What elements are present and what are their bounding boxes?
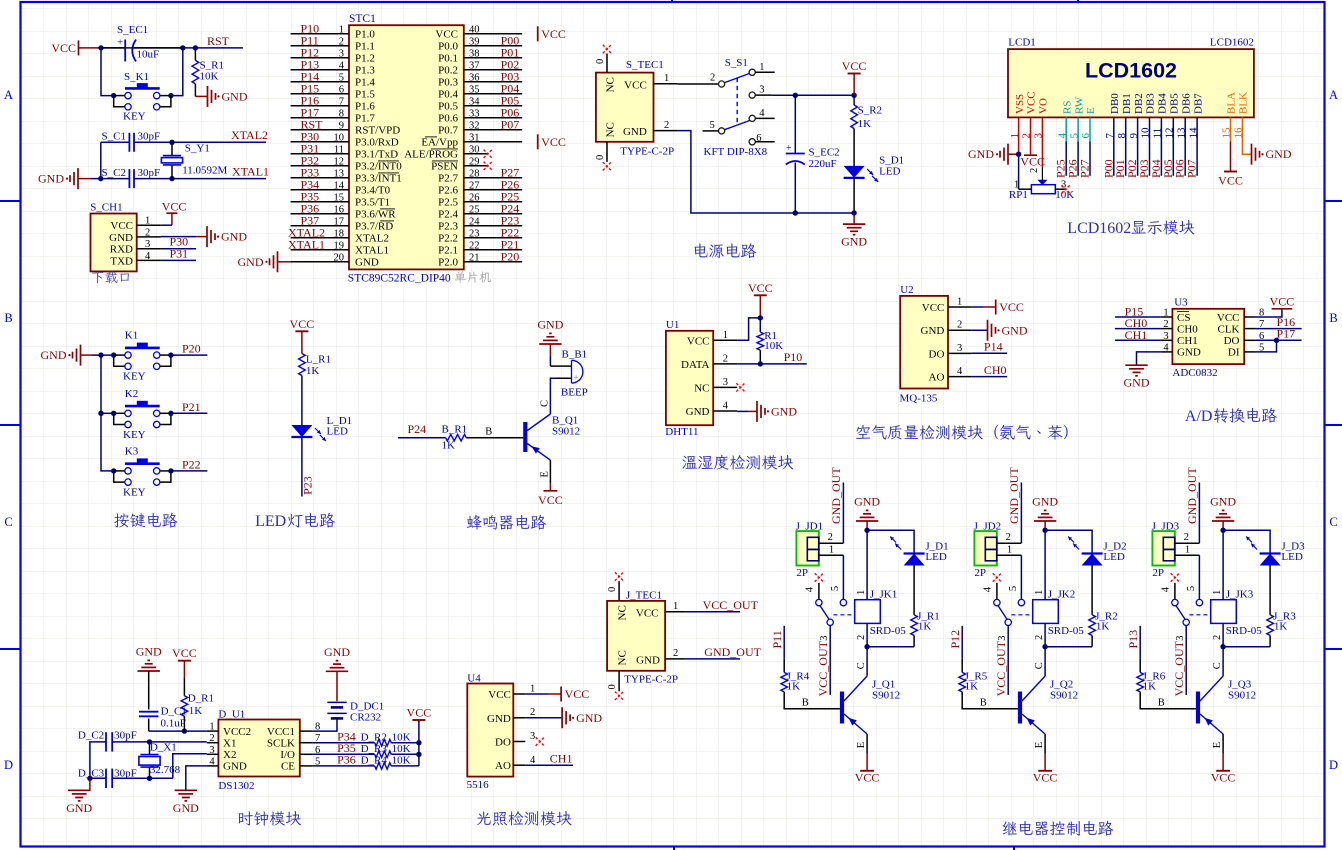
svg-text:24: 24 xyxy=(469,216,480,227)
svg-text:3: 3 xyxy=(957,343,962,354)
svg-text:2P: 2P xyxy=(1152,567,1164,579)
svg-text:K1: K1 xyxy=(125,330,138,342)
pin 22 STC1 (P2.1) xyxy=(464,249,522,251)
svg-text:10uF: 10uF xyxy=(137,49,160,61)
svg-text:P2.3: P2.3 xyxy=(438,221,458,233)
svg-text:1: 1 xyxy=(1163,308,1168,319)
svg-text:P07: P07 xyxy=(1185,159,1199,178)
pin 40 STC1 (VCC) xyxy=(464,33,522,35)
svg-text:VCC1: VCC1 xyxy=(267,726,295,738)
svg-text:PSEN: PSEN xyxy=(431,161,458,173)
wire XTAL2 rail xyxy=(101,141,130,143)
svg-text:E: E xyxy=(1034,742,1045,748)
svg-text:P31: P31 xyxy=(170,246,189,260)
pin 1 U1 (VCC) xyxy=(713,339,737,341)
wire P11 xyxy=(783,626,785,659)
junction xyxy=(864,528,869,533)
svg-text:LCD1602: LCD1602 xyxy=(1085,59,1177,83)
svg-text:U3: U3 xyxy=(1174,297,1188,309)
pin 5 U3 (DI) xyxy=(1244,351,1256,353)
junction xyxy=(793,93,798,98)
ground (buzzer) xyxy=(539,343,561,345)
svg-text:GND: GND xyxy=(109,232,133,244)
pin 2 J_JD2 xyxy=(997,542,1022,544)
pin 24 STC1 (P2.3) xyxy=(464,225,522,227)
pin 9 STC1 (RST/VPD) xyxy=(291,129,349,131)
pin 20 STC1 (GND) xyxy=(291,261,349,263)
svg-text:0: 0 xyxy=(595,59,606,64)
svg-text:LED: LED xyxy=(879,166,900,178)
svg-text:D_X1: D_X1 xyxy=(150,742,177,754)
svg-text:P1.1: P1.1 xyxy=(355,41,375,53)
svg-text:220uF: 220uF xyxy=(809,158,837,170)
pin 7 U3 (CLK) xyxy=(1244,328,1256,330)
pin 37 STC1 (P0.2) xyxy=(464,69,522,71)
junction xyxy=(1220,528,1225,533)
svg-text:B: B xyxy=(802,698,809,709)
svg-text:E: E xyxy=(856,742,867,748)
junction xyxy=(87,776,92,781)
capacitor D_C2 30pF xyxy=(105,732,107,751)
pin 34 STC1 (P0.5) xyxy=(464,105,522,107)
svg-text:S_TEC1: S_TEC1 xyxy=(626,59,664,71)
resistor J_R2 1K xyxy=(1091,566,1093,615)
svg-text:GND: GND xyxy=(921,325,945,337)
svg-text:P1.2: P1.2 xyxy=(355,53,375,65)
pin 36 STC1 (P0.3) xyxy=(464,81,522,83)
wire pin2 to bottom rail xyxy=(678,131,855,213)
wire GND to relay pin1 xyxy=(866,521,868,530)
junction xyxy=(1042,644,1047,649)
wire D_C2 left xyxy=(90,742,106,778)
resistor D_R3 10K xyxy=(375,751,392,758)
capacitor S_EC2 220uF xyxy=(794,95,796,153)
svg-text:S_Y1: S_Y1 xyxy=(185,143,210,155)
svg-text:E: E xyxy=(1085,107,1097,114)
svg-text:35: 35 xyxy=(469,84,480,95)
svg-text:3: 3 xyxy=(723,377,728,388)
svg-text:32.768: 32.768 xyxy=(150,764,181,776)
svg-text:P1.3: P1.3 xyxy=(355,65,375,77)
wire pin4 P31 xyxy=(161,259,196,261)
pin 17 STC1 (P3.7/RD) xyxy=(291,225,349,227)
pin 2 S_CH1 (GND) xyxy=(137,236,161,238)
pin 35 STC1 (P0.4) xyxy=(464,93,522,95)
pin 3 STC1 (P1.2) xyxy=(291,57,349,59)
pin 4 S_CH1 (TXD) xyxy=(137,259,161,261)
svg-text:D_R3: D_R3 xyxy=(361,743,388,755)
svg-text:C: C xyxy=(856,662,867,669)
junction xyxy=(147,776,152,781)
svg-text:DB5: DB5 xyxy=(1169,93,1181,114)
resistor J_R5 1K xyxy=(961,659,963,673)
power port VCC pin31 xyxy=(537,134,539,149)
ground (LCD right) xyxy=(1251,144,1253,165)
wire base xyxy=(466,437,523,439)
pin 7 STC1 (P1.6) xyxy=(291,105,349,107)
svg-text:CH0: CH0 xyxy=(984,363,1007,377)
resistor J_R4 1K xyxy=(783,659,785,673)
svg-text:DS1302: DS1302 xyxy=(218,780,254,792)
wire pin1 VCC xyxy=(525,693,548,695)
svg-text:GND: GND xyxy=(238,255,264,269)
wire P15 xyxy=(1115,316,1161,318)
wire P21 xyxy=(171,412,208,414)
svg-text:RS: RS xyxy=(1061,101,1073,114)
svg-text:GND: GND xyxy=(636,654,660,666)
wire emitter to VCC xyxy=(1222,734,1224,754)
wire base xyxy=(1140,692,1196,709)
buzzer B_B1 BEEP xyxy=(550,365,571,367)
svg-text:CH1: CH1 xyxy=(550,752,573,766)
wire pin8 VCC xyxy=(1256,309,1282,317)
capacitor D_C1 0.1uF xyxy=(148,671,150,710)
svg-text:1K: 1K xyxy=(1143,681,1157,693)
svg-text:VCC_OUT: VCC_OUT xyxy=(1172,640,1186,696)
title 蜂鸣器电路 xyxy=(467,515,546,530)
junction xyxy=(169,140,174,145)
svg-text:31: 31 xyxy=(469,132,480,143)
capacitor S_C1 30pF xyxy=(128,133,130,152)
svg-text:P11: P11 xyxy=(770,630,784,648)
pin 0 bottom (NC) xyxy=(606,142,608,162)
zone divider ticks xyxy=(0,200,21,202)
pin 12 STC1 (P3.2/INT0) xyxy=(291,165,349,167)
svg-text:4: 4 xyxy=(957,366,963,377)
wire pin7 P16 xyxy=(1256,328,1302,330)
svg-text:13: 13 xyxy=(334,168,345,179)
pin 3 U3 (CH1) xyxy=(1161,339,1173,341)
svg-text:2: 2 xyxy=(723,353,728,364)
pin 1 S_CH1 (VCC) xyxy=(137,224,161,226)
wire E xyxy=(1089,117,1091,141)
svg-text:VCC: VCC xyxy=(435,29,458,41)
wire LED to P23 xyxy=(301,437,303,497)
power port VCC pin40 xyxy=(537,26,539,41)
wire VO pin3 xyxy=(1041,117,1043,166)
svg-text:P27: P27 xyxy=(1078,159,1092,178)
svg-text:1: 1 xyxy=(1212,590,1223,595)
crystal D_X1 32.768 xyxy=(149,742,151,755)
svg-text:10K: 10K xyxy=(392,755,411,767)
svg-text:33: 33 xyxy=(469,108,480,119)
svg-text:KEY: KEY xyxy=(123,486,146,498)
wire P12 xyxy=(961,626,963,659)
svg-text:B: B xyxy=(980,698,987,709)
svg-text:10K: 10K xyxy=(200,71,219,83)
switch arm xyxy=(820,606,829,620)
wire switch pin6 stub xyxy=(755,141,774,143)
wire collector xyxy=(1044,647,1046,676)
svg-text:VCC: VCC xyxy=(172,646,197,660)
pin 6 U3 (DO) xyxy=(1244,339,1256,341)
ground (crystal clock) xyxy=(89,778,91,790)
svg-text:GND: GND xyxy=(771,404,797,418)
svg-text:1: 1 xyxy=(673,601,678,612)
contact 4 with no-connect xyxy=(993,573,1001,581)
svg-text:S_K1: S_K1 xyxy=(124,71,149,83)
svg-text:11.0592M: 11.0592M xyxy=(182,165,227,177)
pin 1 U2 (VCC) xyxy=(948,306,971,308)
svg-text:1K: 1K xyxy=(306,365,320,377)
svg-text:P13: P13 xyxy=(1126,630,1140,649)
svg-text:DO: DO xyxy=(1224,335,1240,347)
svg-text:VCC: VCC xyxy=(1217,312,1240,324)
ground (crystal) xyxy=(77,168,79,189)
wire emitter to VCC xyxy=(1044,734,1046,754)
pin 11 STC1 (P3.1/TxD) xyxy=(291,153,349,155)
junction xyxy=(98,176,103,181)
svg-text:P1.4: P1.4 xyxy=(355,77,375,89)
wire XTAL1 rail xyxy=(91,178,130,180)
svg-text:P2.0: P2.0 xyxy=(438,257,458,269)
title 空气质量检测模块（氨气、苯） xyxy=(856,425,1068,440)
pin 1 J_TEC1 (VCC) xyxy=(665,611,685,613)
capacitor S_C2 30pF xyxy=(128,169,130,188)
pin 6 D_U1 (I/O) xyxy=(300,753,313,755)
svg-text:D_R4: D_R4 xyxy=(361,755,388,767)
pin 21 STC1 (P2.0) xyxy=(464,261,522,263)
key K3 xyxy=(111,468,116,473)
resistor R1 10K xyxy=(759,318,761,332)
svg-text:10: 10 xyxy=(334,132,345,143)
svg-text:P3.6/WR: P3.6/WR xyxy=(355,209,396,221)
pin 4 STC1 (P1.3) xyxy=(291,69,349,71)
ground (power circuit) xyxy=(853,213,855,224)
svg-text:2: 2 xyxy=(1006,532,1011,543)
wire GND to LED xyxy=(867,530,914,553)
svg-text:GND: GND xyxy=(623,126,647,138)
pin 31 STC1 (EA/Vpp) xyxy=(464,141,522,143)
svg-text:P1.5: P1.5 xyxy=(355,89,375,101)
wire VSS to GND rail xyxy=(1018,117,1020,154)
no-connect pin30 xyxy=(484,150,492,158)
key K1 xyxy=(111,352,116,357)
svg-text:B_R1: B_R1 xyxy=(442,424,468,436)
ground (relay 2) xyxy=(1034,520,1056,522)
junction xyxy=(182,728,187,733)
LED L_D1 xyxy=(291,425,312,437)
svg-text:DB0: DB0 xyxy=(1109,93,1121,114)
svg-text:P23: P23 xyxy=(301,476,315,495)
svg-text:GND: GND xyxy=(537,318,563,332)
capacitor S_EC1 10uF xyxy=(124,40,126,62)
transistor B_Q1 S9012 xyxy=(523,422,527,452)
svg-text:28: 28 xyxy=(469,168,480,179)
wire GND_OUT xyxy=(685,658,740,660)
junction xyxy=(416,740,421,745)
svg-text:GND: GND xyxy=(1002,323,1028,337)
wire left branch down to key xyxy=(101,48,114,96)
pin 26 STC1 (P2.5) xyxy=(464,201,522,203)
wire DB6 xyxy=(1184,117,1186,175)
svg-text:22: 22 xyxy=(469,240,480,251)
pin 10 STC1 (P3.0/RxD) xyxy=(291,141,349,143)
svg-text:GND: GND xyxy=(355,257,379,269)
svg-text:P07: P07 xyxy=(501,117,520,131)
wire contact 3 VCC_OUT xyxy=(1007,626,1009,695)
LED J_D1 xyxy=(904,552,925,554)
wire pin4 CH0 xyxy=(971,376,1007,378)
svg-text:P22: P22 xyxy=(182,457,201,471)
svg-text:GND: GND xyxy=(1032,495,1058,509)
pin 8 STC1 (P1.7) xyxy=(291,117,349,119)
svg-text:J_JK3: J_JK3 xyxy=(1226,589,1254,601)
svg-text:VCC: VCC xyxy=(538,493,563,507)
pin 7 D_U1 (SCLK) xyxy=(300,742,313,744)
pin 4 D_U1 (GND) xyxy=(207,765,219,767)
svg-text:P2.7: P2.7 xyxy=(438,173,458,185)
svg-text:2: 2 xyxy=(828,532,833,543)
contact 5 xyxy=(840,599,846,605)
svg-text:3: 3 xyxy=(530,731,535,742)
svg-text:LCD1602: LCD1602 xyxy=(1067,220,1131,237)
pin 28 STC1 (P2.7) xyxy=(464,177,522,179)
svg-text:11: 11 xyxy=(334,144,344,155)
svg-text:J_TEC1: J_TEC1 xyxy=(626,590,662,602)
junction xyxy=(793,210,798,215)
svg-text:5: 5 xyxy=(830,586,841,591)
svg-text:VCC: VCC xyxy=(687,335,710,347)
label 单片机 xyxy=(455,271,491,283)
svg-text:S_C2: S_C2 xyxy=(102,167,126,179)
wire VCC to RST node xyxy=(101,47,243,49)
svg-text:GND: GND xyxy=(1210,495,1236,509)
pin 1 J_JD1 xyxy=(819,554,844,556)
svg-text:GND: GND xyxy=(136,645,162,659)
svg-text:VCC: VCC xyxy=(922,302,945,314)
svg-text:P1.6: P1.6 xyxy=(355,101,375,113)
svg-text:RXD: RXD xyxy=(110,244,133,256)
wire DB7 xyxy=(1196,117,1198,175)
svg-text:B: B xyxy=(1158,698,1165,709)
no-connect bottom xyxy=(603,162,611,170)
wire X2 row xyxy=(112,777,173,779)
wire pin2 GND xyxy=(525,717,562,719)
svg-text:KEY: KEY xyxy=(123,429,146,441)
wire contact 3 VCC_OUT xyxy=(829,626,831,695)
pin 1 U3 (CS) xyxy=(1161,316,1173,318)
svg-text:S9012: S9012 xyxy=(552,426,580,438)
pin 2 U1 (DATA) xyxy=(713,363,737,365)
svg-text:3: 3 xyxy=(819,635,830,640)
svg-text:VO: VO xyxy=(1038,98,1050,114)
svg-text:36: 36 xyxy=(469,72,480,83)
svg-text:P20: P20 xyxy=(182,342,201,356)
svg-text:LCD1602: LCD1602 xyxy=(1210,37,1254,49)
svg-text:DB2: DB2 xyxy=(1133,93,1145,114)
svg-text:20: 20 xyxy=(334,252,345,263)
svg-text:VCC: VCC xyxy=(110,220,133,232)
pin 3 U1 (NC) xyxy=(713,386,737,388)
pin 5 STC1 (P1.4) xyxy=(291,81,349,83)
svg-text:+: + xyxy=(117,37,123,49)
svg-text:GND: GND xyxy=(576,711,602,725)
svg-text:32: 32 xyxy=(469,120,480,131)
contact 5 xyxy=(1018,599,1024,605)
wire VCC_OUT xyxy=(685,611,740,613)
svg-text:GND: GND xyxy=(1177,347,1201,359)
pin 15 STC1 (P3.5/T1) xyxy=(291,201,349,203)
svg-text:GND_OUT: GND_OUT xyxy=(1007,467,1021,524)
svg-text:DI: DI xyxy=(1228,347,1240,359)
svg-text:30pF: 30pF xyxy=(138,167,161,179)
svg-text:1: 1 xyxy=(664,73,669,84)
svg-text:K2: K2 xyxy=(125,388,138,400)
svg-text:S_EC1: S_EC1 xyxy=(117,24,148,36)
svg-text:4: 4 xyxy=(982,586,993,592)
no-connect bottom J_TEC1 xyxy=(615,692,623,700)
svg-text:1K: 1K xyxy=(918,621,932,633)
power port VCC (BLA) xyxy=(1224,171,1237,173)
power port VCC (MQ135) xyxy=(995,300,997,315)
resistor B_R1 1K xyxy=(446,434,467,441)
wire pin6 P17 xyxy=(1256,339,1302,341)
pin 2 J_TEC1 (GND) xyxy=(665,658,685,660)
svg-text:S9012: S9012 xyxy=(1050,690,1078,702)
svg-text:AO: AO xyxy=(929,372,945,384)
svg-text:VCC: VCC xyxy=(999,300,1024,314)
svg-text:S_C1: S_C1 xyxy=(102,131,126,143)
svg-text:P2.1: P2.1 xyxy=(438,245,458,257)
svg-text:1: 1 xyxy=(209,722,214,733)
svg-text:KEY: KEY xyxy=(123,371,146,383)
svg-text:26: 26 xyxy=(469,192,480,203)
svg-text:5: 5 xyxy=(1186,586,1197,591)
ground (MQ135) xyxy=(987,320,989,341)
resistor J_R3 1K xyxy=(1269,566,1271,615)
wire pin3 P30 xyxy=(161,248,196,250)
svg-text:DB7: DB7 xyxy=(1192,93,1204,114)
ground (LCD left) xyxy=(1007,144,1009,165)
wire BLA to VCC xyxy=(1230,117,1232,141)
resistor J_R1 1K xyxy=(913,566,915,615)
svg-text:1: 1 xyxy=(530,684,535,695)
svg-text:1: 1 xyxy=(145,216,150,227)
svg-text:GND_OUT: GND_OUT xyxy=(704,645,761,659)
switch arm xyxy=(998,606,1007,620)
wire to contact 5 xyxy=(842,555,844,599)
no-connect RP1 pin3 xyxy=(1062,185,1070,193)
svg-text:40: 40 xyxy=(469,24,480,35)
svg-text:P0.5: P0.5 xyxy=(438,101,458,113)
svg-text:CH1: CH1 xyxy=(1125,328,1148,342)
svg-text:VCC: VCC xyxy=(541,27,566,41)
svg-text:VCC_OUT: VCC_OUT xyxy=(994,640,1008,696)
mechanical link dashes xyxy=(1011,614,1032,616)
svg-text:2: 2 xyxy=(664,120,669,131)
wire pin4 GND down xyxy=(1137,352,1161,365)
wire emitter to VCC xyxy=(866,734,868,754)
svg-text:5: 5 xyxy=(339,72,344,83)
svg-text:0: 0 xyxy=(595,155,606,160)
svg-text:VSS: VSS xyxy=(1014,94,1026,114)
junction xyxy=(98,411,103,416)
pin 27 STC1 (P2.6) xyxy=(464,189,522,191)
svg-text:C: C xyxy=(4,515,12,529)
pin 2 D_U1 (X1) xyxy=(207,742,219,744)
pin 5 D_U1 (CE) xyxy=(300,765,313,767)
wire relay pin2 node xyxy=(1044,623,1046,646)
resistor D_R4 10K xyxy=(375,763,392,770)
wire GND rail keys xyxy=(92,354,114,356)
svg-text:CLK: CLK xyxy=(1218,323,1240,335)
wire right branch down to key xyxy=(171,48,183,96)
ground (keys) xyxy=(80,345,82,366)
wire BLK to GND xyxy=(1242,117,1251,154)
svg-text:P0.6: P0.6 xyxy=(438,113,458,125)
svg-text:4: 4 xyxy=(209,756,215,767)
